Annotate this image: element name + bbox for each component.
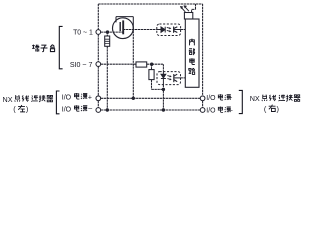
optocoupler PC2 LED <box>161 72 166 85</box>
junction dot R3 to LED cathode <box>162 88 165 91</box>
optocoupler PC2 dashed box <box>157 72 181 85</box>
optocoupler PC1 phototransistor <box>174 27 181 33</box>
optocoupler PC2 phototransistor <box>174 74 181 82</box>
optocoupler PC1 dashed box <box>157 24 181 36</box>
terminal T0 circle <box>96 30 101 35</box>
junction dot node A <box>150 62 153 65</box>
wire: R2 to node A <box>147 63 152 65</box>
label I/O power - (right) <box>206 106 232 114</box>
junction dot on + rail x133 <box>132 97 135 100</box>
bracket terminal block <box>59 26 62 68</box>
MOSFET Q1 channel bar <box>122 20 124 34</box>
label NX bus connector (right) <box>250 94 301 103</box>
svg-text:): ) <box>26 105 28 114</box>
wire: node A to coupler LED anode <box>152 64 164 71</box>
wire: SI input wire <box>101 63 136 65</box>
MOSFET Q1 gate bar <box>119 22 121 31</box>
label I/O power - (left) <box>62 105 92 113</box>
svg-text:(: ( <box>13 105 16 114</box>
terminal IO- left circle <box>96 108 101 113</box>
wire: right column drop <box>202 4 204 108</box>
svg-text:(: ( <box>264 104 267 113</box>
wire: coupler LED cathode down to - rail <box>162 85 164 109</box>
terminal SI circle <box>96 62 101 67</box>
junction dot on T0 wire <box>106 30 109 33</box>
wire: indicator LED jog to top rail <box>192 4 196 13</box>
svg-text:I/O: I/O <box>62 94 72 101</box>
wire: coupler 1 out to internal circuit <box>181 29 186 31</box>
svg-text:SI0 ~ 7: SI0 ~ 7 <box>70 61 93 69</box>
resistor R1 <box>105 36 110 46</box>
bracket bottom left <box>56 91 59 114</box>
svg-text:–: – <box>229 107 233 114</box>
svg-text:I/O: I/O <box>62 107 72 114</box>
svg-text:): ) <box>277 104 279 113</box>
indicator LED box <box>184 13 192 20</box>
MOSFET Q1 circle <box>113 18 134 39</box>
svg-text:+: + <box>88 94 92 101</box>
internal circuit box <box>185 19 199 87</box>
label: internal circuit (内部电路) vertical <box>189 39 195 75</box>
label I/O power + (right) <box>206 94 232 102</box>
optocoupler PC1 light arrows <box>167 27 171 31</box>
svg-text:–: – <box>88 106 92 113</box>
terminal IO+ left circle <box>96 96 101 101</box>
wire: node A down through R3 <box>152 64 164 89</box>
label (left) 左 <box>13 105 28 114</box>
svg-text:NX: NX <box>3 95 13 104</box>
svg-text:I/O: I/O <box>206 95 216 102</box>
svg-text:+: + <box>228 95 232 102</box>
resistor R2 <box>136 62 147 67</box>
junction dot on - rail x163 <box>162 108 165 111</box>
wire: coupler 2 out to internal circuit <box>181 77 186 79</box>
wire: I/O power - rail <box>101 109 201 111</box>
wire: T0 output wire <box>101 31 123 33</box>
circuit schematic: NX-series I/O unit internal circuit <box>0 0 303 124</box>
bracket bottom right <box>239 90 243 113</box>
optocoupler PC2 light arrows <box>167 76 170 80</box>
wire: I/O power + rail <box>101 97 201 99</box>
svg-text:T0 ~ 1: T0 ~ 1 <box>73 30 93 37</box>
label: terminal block (端子台) <box>32 45 55 52</box>
indicator LED light arrows <box>180 6 189 12</box>
wire: top I/O power rail <box>98 3 202 5</box>
svg-text:NX: NX <box>250 94 260 103</box>
junction dot on - rail x107 <box>106 108 109 111</box>
wire: bleed resistor branch R1 vertical <box>106 32 108 109</box>
terminal IO+ right circle <box>200 96 205 101</box>
terminal IO- right circle <box>200 108 205 113</box>
label (right) 右 <box>264 104 279 113</box>
label I/O power + (left) <box>62 93 92 101</box>
wire: MOSFET source line down to + rail <box>132 31 134 97</box>
wire: MOSFET gate wire to coupler <box>123 29 157 31</box>
wire: left terminal column drop <box>97 4 99 108</box>
label NX bus connector (left) <box>3 95 54 104</box>
wire: MOSFET source loop top <box>116 17 133 31</box>
resistor R3 <box>149 70 154 80</box>
svg-text:I/O: I/O <box>206 108 216 115</box>
optocoupler PC1 LED <box>157 27 165 33</box>
